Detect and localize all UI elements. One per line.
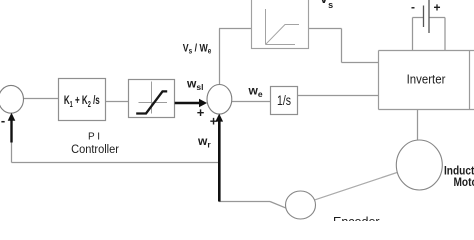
svg-text:-: -	[411, 0, 415, 14]
svg-text:+: +	[433, 1, 440, 15]
svg-text:P I: P I	[88, 132, 100, 143]
svg-text:+: +	[197, 105, 205, 120]
svg-text:Inverter: Inverter	[407, 72, 446, 87]
svg-text:Controller: Controller	[71, 144, 119, 156]
svg-text:1/s: 1/s	[277, 93, 291, 109]
svg-text:+: +	[210, 114, 218, 129]
svg-text:-: -	[1, 113, 5, 128]
svg-text:Vs / We: Vs / We	[183, 42, 212, 55]
svg-text:Encoder: Encoder	[333, 215, 380, 221]
svg-text:Motor: Motor	[454, 177, 474, 190]
svg-text:K1 + K2 /s: K1 + K2 /s	[64, 95, 100, 110]
